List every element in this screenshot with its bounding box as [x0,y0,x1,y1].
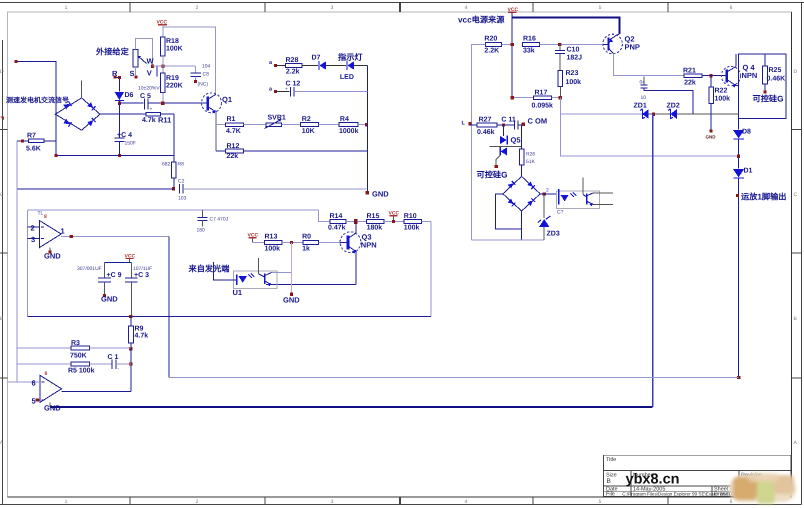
svg-text:R14: R14 [330,213,343,220]
svg-text:100k: 100k [404,224,420,232]
svg-text:0.46K: 0.46K [767,76,786,83]
row tick marks left [0,130,8,379]
transistor Q4 [721,66,740,85]
svg-text:307/001UF: 307/001UF [77,266,102,272]
wire R27 left stub [470,124,477,126]
wire VCC stem [511,12,513,17]
svg-text:GND: GND [706,135,717,140]
svg-text:5: 5 [599,5,602,11]
wire C9 C3 link [105,262,132,264]
svg-text:4.7k: 4.7k [142,116,156,124]
wire bridge2 left L [496,194,522,229]
sheet inner right heavy line [791,12,793,497]
svg-text:File: File [606,492,615,498]
pin 2 stub [28,226,40,228]
resistor R27 [477,123,497,127]
node ZD junction dot [652,112,655,115]
svg-text:R8: R8 [178,162,185,168]
svg-text:B: B [607,478,611,485]
wire gnd line right part [183,188,367,190]
wire R9 node down [130,349,132,392]
svg-text:+: + [150,107,153,113]
svg-text:Q1: Q1 [222,95,232,104]
resistor R15 [366,220,384,224]
svg-text:D6: D6 [125,92,134,99]
box1 top edge [28,209,319,211]
svg-text:100k: 100k [566,78,582,86]
zener ZD1 [640,109,645,119]
svg-text:22k: 22k [684,79,696,87]
wire R17 node down and right [560,98,738,157]
wire opto2 emitter out [594,204,614,206]
resistor R25 [764,54,766,66]
wire long vertical x652 [652,114,654,407]
svg-text:R26: R26 [526,152,535,158]
wire Q3 emitter down [355,252,357,285]
wire zener line mid gray [649,113,671,115]
wire bridge2 bottom [521,211,523,240]
svg-text:W: W [147,57,155,66]
bridge2 diode 1 [508,181,516,189]
svg-text:2.2K: 2.2K [484,48,499,55]
resistor R5 [17,363,71,365]
resistor R0 [303,241,318,245]
optocoupler U1 transistor [264,273,266,284]
node W junction dot [151,65,154,68]
resistor R18 [161,37,166,56]
potentiometer wiper arrow [139,57,147,64]
wire R14 to R15 [346,221,366,223]
svg-text:+C 9: +C 9 [107,272,122,279]
node C10 dot [558,43,561,46]
svg-text:104: 104 [202,64,211,70]
node C12 left dot [274,90,277,93]
wire C12 to vertical [294,90,367,92]
wire R7 left [17,140,28,142]
svg-text:182J: 182J [567,55,583,62]
wire box1 top to R14 [318,210,330,221]
wire V terminal [153,66,158,76]
svg-text:+C 4: +C 4 [117,132,132,139]
wire SVR1 to R2 [282,124,301,126]
wire R1 to SVR1 [244,124,266,126]
svg-text:U1: U1 [233,288,243,297]
svg-text:1k: 1k [302,245,310,253]
wire zener line left light [560,113,642,115]
svg-text:Q5: Q5 [511,136,521,145]
wire R13 to R0 [282,241,303,243]
pin 5 stub [35,399,40,401]
svg-text:R13: R13 [265,234,278,241]
transistor Q1 [202,93,222,113]
wire R dot to D6 [115,77,119,79]
wire bridge2 right to opto2 [540,193,556,195]
bridge2 diode 3 [508,199,516,207]
node C1 dot [129,362,132,365]
wire R2 to R4 [319,124,339,126]
wire R3 to R9 node [89,347,131,349]
potentiometer W body [133,49,138,67]
svg-text:100k: 100k [265,245,281,253]
resistor R11 [100,113,146,115]
svg-text:2.2k: 2.2k [286,68,300,76]
svg-text:C: C [0,192,4,198]
svg-text:51K: 51K [526,159,536,165]
zener ZD2 [668,109,673,119]
bridge2 diode 4 [527,198,535,206]
wire main signal line left part [119,102,143,104]
svg-text:R1: R1 [227,116,236,123]
thyristor-G box [739,54,787,119]
svg-text:R18: R18 [166,38,179,45]
watermark stamp [729,473,796,504]
resistor R23 [558,71,563,87]
capacitor C11 [514,121,516,130]
node R17 right dot [559,96,562,99]
wire ground bus y155 [56,155,174,157]
resistor R9 [130,317,132,326]
wire R18 to R19 [162,56,164,73]
wire Q5 middle terminal [490,146,522,148]
wire zener line right gray [677,113,739,115]
svg-text:C7 470J: C7 470J [210,217,229,223]
wire D8 to D1 [738,139,740,169]
svg-text:GND: GND [44,252,61,261]
wire R19 bottom [162,93,164,104]
wire R20 right [502,44,513,46]
wire main signal line right part [148,102,203,104]
wire D1 down to output node [738,178,740,378]
node C3 bottom dot [129,315,132,318]
resistor R26 [521,125,523,149]
resistor R28 [286,63,302,67]
svg-text:C8: C8 [203,72,210,78]
node AC input dot [15,60,18,63]
svg-text:0.47k: 0.47k [328,224,346,232]
row letters right [794,69,798,446]
svg-text:ZD1: ZD1 [634,103,647,110]
wire Q3 collector up [355,222,357,233]
svg-text:C:\Program Files\Design Explor: C:\Program Files\Design Explorer 99 SE\E… [622,492,741,497]
wire R28 to D7 [302,64,318,66]
svg-text:R23: R23 [566,70,579,77]
capacitor C5 [143,99,145,110]
svg-text:220K: 220K [166,83,183,90]
diode D8 [738,119,740,130]
node R13 R0 junction dot [290,241,293,244]
vertical bus left [16,141,18,382]
bridge rectifier D-bridge outline [55,98,100,130]
svg-text:C?: C? [557,210,564,216]
svg-text:R9: R9 [135,326,144,333]
svg-text:4.7k: 4.7k [135,332,149,340]
svg-text:R3: R3 [71,340,80,347]
svg-text:R25: R25 [769,67,782,74]
bridge diode 1 [63,101,71,109]
wire D7 to LED [325,64,346,66]
svg-text:来自发光端: 来自发光端 [188,264,230,274]
node R19 bottom main dot [161,102,164,105]
svg-text:3: 3 [31,235,35,244]
wire horizontal y377 [169,377,739,379]
node R27 left dot [468,122,471,125]
wire AC input top [16,62,56,115]
svg-text:C2: C2 [178,179,185,185]
node R20 VCC dot [511,43,514,46]
capacitor C10 [559,45,561,51]
svg-text:1: 1 [65,499,68,505]
diode LED D-LED [346,61,348,71]
wire C12 left stub [275,90,289,92]
sheet inner bottom heavy line [8,496,792,498]
svg-text:750K: 750K [70,353,87,360]
optocoupler U2 LED [558,189,560,205]
wire R16 right to C10 node [540,44,560,46]
sheet outer border bottom [0,504,802,506]
svg-text:V: V [147,68,152,77]
svg-text:PNP: PNP [625,43,640,52]
off-sheet marker left border [0,117,4,121]
svg-text:R7: R7 [27,133,36,140]
svg-text:R16: R16 [523,36,536,43]
node R4 right dot [365,123,368,126]
optocoupler U1 LED [236,275,238,286]
svg-text:ZD3: ZD3 [547,231,560,238]
svg-text:3: 3 [331,499,334,505]
svg-text:C 11: C 11 [501,117,516,124]
wire opto collector [272,272,292,274]
wire R28 left stub [275,64,285,66]
svg-text:外接给定: 外接给定 [95,47,130,57]
wire R20 left down [472,45,486,241]
svg-text:R12: R12 [227,143,240,150]
svg-text:1000k: 1000k [339,127,359,135]
svg-text:R21: R21 [683,68,696,75]
wire C10 node to Q2 base [561,44,603,46]
wire R8 to C2 [173,178,175,189]
svg-text:R22: R22 [715,88,728,95]
svg-text:180k: 180k [367,224,383,232]
svg-text:4: 4 [465,499,468,505]
column tick marks bottom [130,497,668,505]
svg-text:5: 5 [32,397,36,406]
capacitor C2 [179,184,181,194]
node bus left dot [54,154,57,157]
node R28 left dot [274,64,277,67]
node Q5 top dot [502,123,505,126]
svg-text:6: 6 [730,499,733,505]
wire Q4 collector to box top [735,54,737,67]
wire R10 right to box edge [422,221,431,223]
wire pot top loop [136,38,153,66]
sheet outer border left [2,40,4,505]
svg-text:可控硅G: 可控硅G [477,170,508,180]
wire bridge left corner down [55,114,57,155]
wire Q1 emitter down [215,112,217,152]
column numbers top [65,5,733,11]
wire cap to zener line [644,88,693,114]
wire Q2 emitter up [617,34,619,35]
transistor Q3 [340,232,361,253]
node output label dot [736,194,739,197]
node GND dot x367 [366,191,369,194]
svg-text:100K: 100K [166,46,183,53]
svg-text:GND: GND [44,404,61,413]
wire R22 gnd stub [710,114,712,130]
svg-text:10±20%V: 10±20%V [138,86,160,92]
op-amp U2A [39,221,61,248]
diode D6 [118,78,120,92]
svg-text:R2: R2 [302,116,311,123]
svg-text:NPN: NPN [361,241,377,250]
svg-text:测速发电机交流信号: 测速发电机交流信号 [6,96,69,105]
svg-text:ybx8.cn: ybx8.cn [626,472,680,488]
resistor R2 [301,123,319,127]
svg-text:103: 103 [178,196,187,202]
wire R21 right [702,75,722,77]
node R7 left dot [21,139,24,142]
svg-text:5: 5 [599,499,602,505]
triac Q5 [503,125,505,136]
svg-text:2: 2 [196,5,199,11]
optocoupler U2 box [556,191,599,209]
svg-text:Title: Title [606,457,616,463]
row letters left [0,69,4,446]
wire R7 right [44,140,56,142]
optocoupler U1 base stub [258,258,260,274]
resistor R8 [172,162,177,178]
svg-text:5.6K: 5.6K [26,146,41,153]
diode D1 [733,169,744,177]
svg-text:R28: R28 [286,57,299,64]
diode D7 [318,61,320,70]
wire R5 to C1 [89,363,111,365]
svg-text:C 5: C 5 [140,93,151,100]
svg-text:R19: R19 [166,75,179,82]
wire R0 to Q3 base [318,241,340,243]
svg-text:8: 8 [44,214,47,220]
op-amp2 gnd stub [49,402,51,407]
box1 bottom edge [28,316,431,318]
op-amp2 output wire [62,390,131,392]
svg-text:6: 6 [32,379,36,388]
svg-text:R27: R27 [479,117,492,124]
node S terminal dot [134,76,137,79]
sheet outer border right [801,3,803,505]
capacitor C7 [202,210,204,217]
optocoupler U1 input wire [214,262,237,280]
svg-text:R4: R4 [340,116,349,123]
node COM dot [521,123,524,126]
node GND dot opto [290,293,293,296]
svg-text:3: 3 [331,5,334,11]
resistor R22 [710,76,712,87]
node bus C4 dot [118,154,121,157]
resistor R16 [522,43,539,47]
node D8 D1 dot [737,155,740,158]
svg-text:0.095k: 0.095k [532,102,554,110]
svg-text:2: 2 [546,188,549,194]
svg-text:ZD2: ZD2 [667,103,680,110]
svg-text:22k: 22k [227,152,239,160]
svg-text:2: 2 [196,499,199,505]
svg-text:2: 2 [31,224,35,233]
wire vertical to GND x367 [366,65,368,192]
trimmer SVR1 [266,123,282,127]
svg-text:0.46k: 0.46k [477,128,495,136]
ground stub op-amp1 [49,248,51,252]
resistor R17 [512,97,533,99]
svg-text:(NC): (NC) [198,82,209,88]
svg-text:1: 1 [65,5,68,11]
bridge2 diode 2 [527,181,535,189]
svg-text:C 1: C 1 [108,354,119,361]
wire R26 to bridge2 top [521,165,523,176]
svg-text:D1: D1 [744,168,753,175]
svg-text:TL: TL [38,211,44,217]
svg-text:D: D [794,69,798,75]
svg-text:R10: R10 [404,213,417,220]
wire Q4 emitter to box [736,85,739,87]
svg-text:D8: D8 [742,129,751,136]
bridge2 rectifier outline [503,176,540,211]
node R9 bottom dot [129,347,132,350]
title block outline [604,455,792,496]
svg-text:指示灯: 指示灯 [338,52,363,62]
svg-text:10: 10 [641,95,647,101]
node R17 left dot [511,96,514,99]
node R terminal dot [113,76,116,79]
capacitor C9 [104,263,106,278]
node main line D6 dot [118,102,121,105]
pin 1 output wire [61,235,169,237]
wire Q5 gate [496,156,500,166]
box1 right edge [430,222,432,317]
wire C1 to node [116,363,131,365]
svg-text:可控硅G: 可控硅G [753,94,784,104]
optocoupler U2 transistor [586,194,588,205]
resistor R7 [28,139,44,143]
resistor R3 [17,347,71,349]
svg-text:GND: GND [283,296,300,305]
wire VCC rail to Q1 collector [163,27,216,94]
resistor R14 [330,220,346,224]
svg-text:D: D [0,69,4,75]
node R14 R15 junction dot [354,219,357,224]
transistor Q2 [603,34,623,54]
resistor R12 [216,150,226,152]
svg-text:R17: R17 [535,90,548,97]
resistor R21 [684,74,702,78]
wire R4 right [358,124,368,126]
wire pot bottom stub [135,67,137,76]
wire wiper to R18 junction [153,65,196,67]
svg-text:+C 3: +C 3 [134,272,149,279]
wire VCC vertical left [511,17,513,97]
svg-text:C OM: C OM [528,117,548,126]
zener ZD3 [543,194,545,218]
svg-text:4.7K: 4.7K [226,128,241,135]
node D6 top dot [118,76,121,79]
svg-text:LED: LED [340,74,354,81]
pin 3 stub [28,237,40,239]
svg-text:C: C [794,192,798,198]
svg-text:GND: GND [101,295,118,304]
svg-text:682: 682 [162,162,171,168]
resistor R4 [339,123,358,127]
wire emitter horizontal [266,284,356,286]
svg-text:8: 8 [45,371,48,377]
